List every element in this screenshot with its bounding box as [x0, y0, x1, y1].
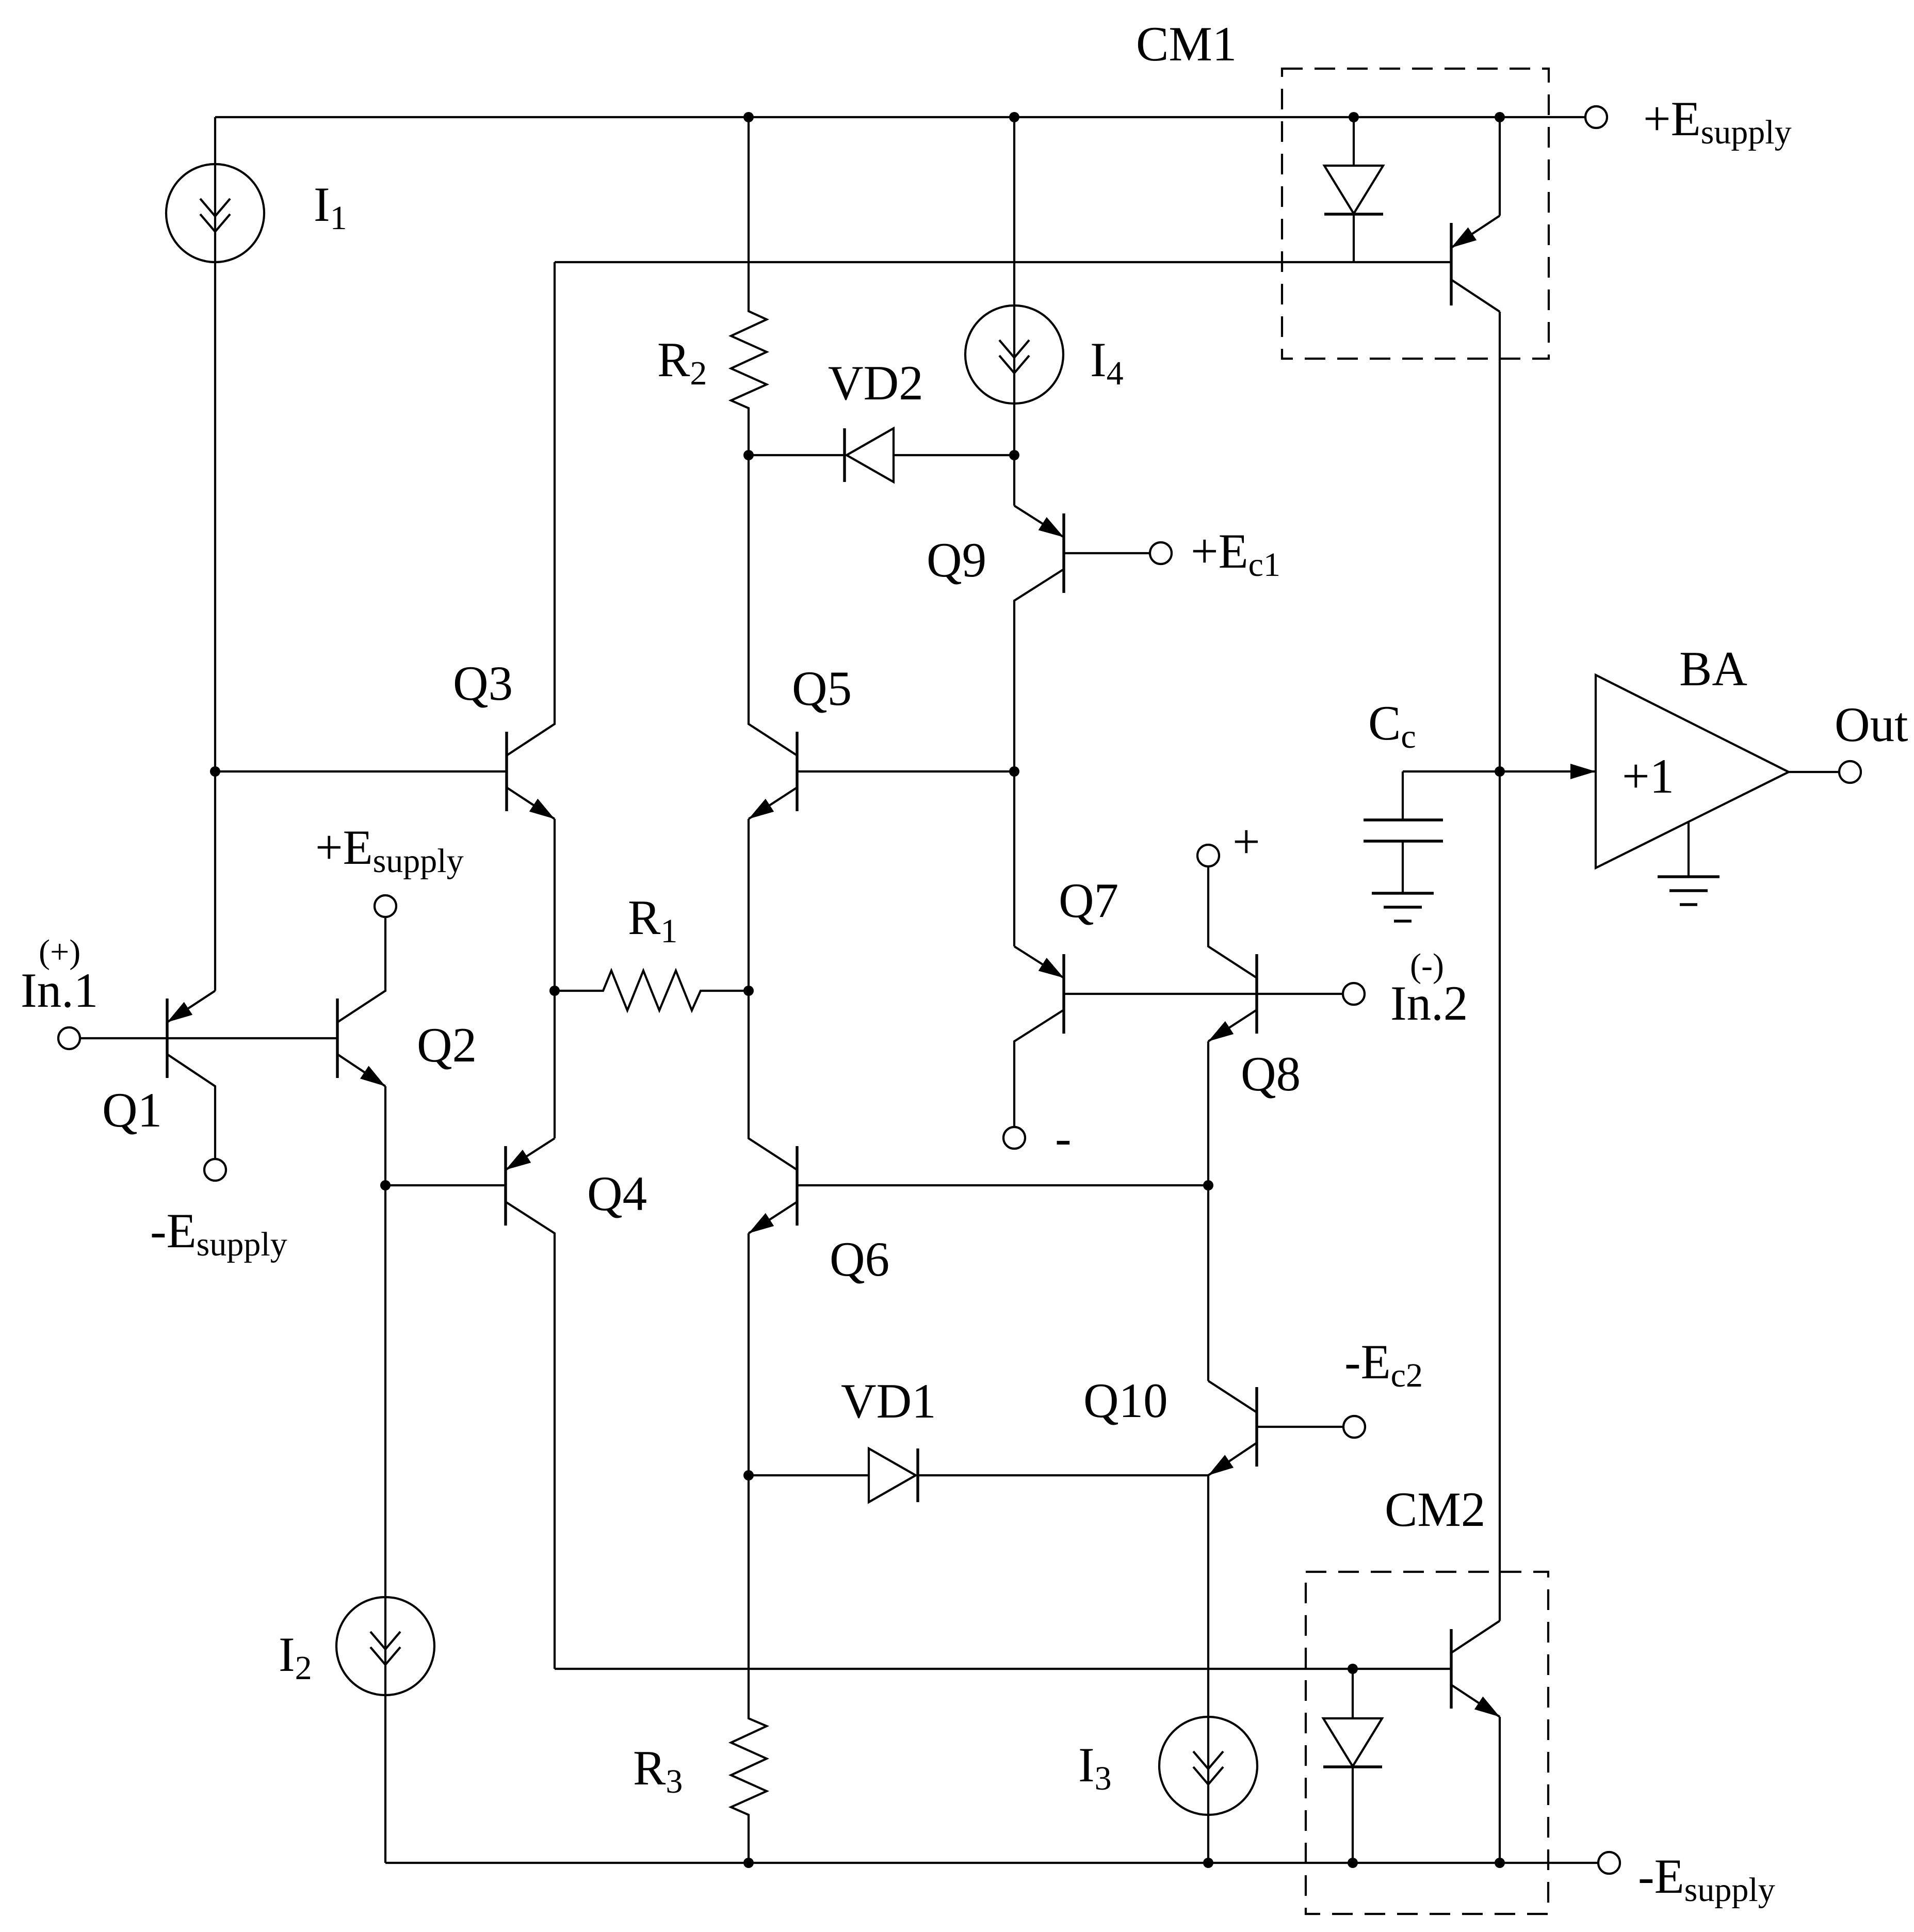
- transistor Q7: [1014, 946, 1064, 978]
- current mirror CM2 dashed box: [1306, 1572, 1548, 1914]
- svg-text:Q4: Q4: [587, 1166, 647, 1221]
- wire left column from top rail through I1 down to Q1 emitter: [214, 117, 216, 991]
- svg-text:In.1: In.1: [21, 963, 98, 1018]
- svg-text:Q10: Q10: [1083, 1373, 1168, 1428]
- resistor R2: [731, 117, 767, 455]
- node Q3 base tap: [210, 766, 220, 777]
- terminal +Ec1: [1150, 542, 1172, 564]
- resistor R3: [731, 1475, 767, 1863]
- wire Cc node to BA input: [1403, 770, 1596, 772]
- terminal -Ec2: [1343, 1416, 1365, 1438]
- current source I2: [336, 1597, 434, 1695]
- node VD2 / I4 bottom: [1009, 450, 1019, 460]
- svg-text:Q3: Q3: [453, 656, 513, 711]
- svg-text:CM2: CM2: [1385, 1482, 1485, 1537]
- node R1 right: [743, 986, 754, 996]
- op-amp buffer BA: [1596, 675, 1789, 868]
- svg-text:BA: BA: [1679, 641, 1747, 696]
- node top rail / CM1 diode: [1349, 112, 1359, 122]
- node top rail / R2: [743, 112, 754, 122]
- wire Q6 base to Q8 emitter node: [797, 1184, 1208, 1186]
- node bottom rail / I3: [1203, 1858, 1213, 1868]
- svg-text:Q1: Q1: [102, 1083, 162, 1137]
- terminal Out: [1839, 761, 1861, 783]
- svg-text:VD1: VD1: [841, 1374, 936, 1428]
- transistor Q9: [1014, 506, 1064, 537]
- svg-text:+1: +1: [1622, 749, 1674, 803]
- terminal +Esupply above Q2: [375, 895, 396, 917]
- transistor Q8: [1255, 954, 1258, 1034]
- svg-text:-: -: [1055, 1110, 1072, 1165]
- svg-text:VD2: VD2: [828, 356, 923, 410]
- transistor Q10: [1207, 1185, 1209, 1381]
- diode VD2: [749, 454, 845, 456]
- node bottom rail / CM2 emitter: [1495, 1858, 1505, 1868]
- svg-text:Q2: Q2: [417, 1018, 477, 1072]
- current source I3: [1159, 1717, 1257, 1815]
- diode VD1: [749, 1474, 869, 1476]
- wire Q3 collector line to CM1 base: [555, 261, 1451, 263]
- transistor Q5: [796, 732, 798, 811]
- wire +Esupply top rail: [215, 116, 1585, 118]
- wire In.1 base line to Q1 and Q2: [80, 1037, 337, 1039]
- transistor Q2: [336, 999, 338, 1078]
- terminal +Esupply top right: [1585, 106, 1607, 128]
- transistor Q6: [796, 1146, 798, 1226]
- wire I2 column: [384, 1185, 386, 1863]
- svg-text:Out: Out: [1835, 697, 1908, 752]
- ground below Cc: [1372, 892, 1434, 894]
- svg-text:Q7: Q7: [1059, 873, 1118, 928]
- node Q2 emitter / Q4 base / I2: [380, 1180, 391, 1190]
- wire Q3 base: [215, 770, 507, 772]
- transistor Q1: [166, 999, 168, 1078]
- resistor R1: [555, 971, 749, 1010]
- terminal In.2: [1343, 983, 1365, 1005]
- current mirror CM1 dashed box: [1282, 69, 1549, 359]
- current source I1: [166, 164, 264, 262]
- wire Q5 base to Q9 collector column: [797, 770, 1014, 772]
- svg-text:Q8: Q8: [1241, 1046, 1301, 1101]
- transistor CM1: [1450, 223, 1452, 305]
- capacitor Cc: [1402, 771, 1404, 820]
- svg-text:In.2: In.2: [1390, 976, 1468, 1031]
- node Q5 base / Q9 collector: [1009, 766, 1019, 777]
- terminal plus above Q8: [1197, 845, 1219, 866]
- svg-text:CM1: CM1: [1136, 17, 1237, 71]
- node VD1 anode / Q6 collector column: [743, 1470, 754, 1480]
- svg-text:Q9: Q9: [927, 533, 986, 587]
- wire BA output: [1789, 771, 1839, 773]
- diode CM1: [1353, 117, 1355, 166]
- wire Q4 collector line to CM2 base: [555, 1668, 1451, 1670]
- svg-text:Q5: Q5: [792, 661, 852, 716]
- wire Q4 base from Q2 emitter node: [385, 1184, 506, 1186]
- node CM2 base / diode: [1348, 1664, 1358, 1674]
- wire Q10 emitter down to I3: [1207, 1475, 1209, 1863]
- terminal -Esupply bottom right: [1598, 1852, 1620, 1874]
- terminal -Esupply below Q1: [204, 1159, 226, 1181]
- diode CM2: [1352, 1669, 1354, 1718]
- node BA input / CM collector column: [1495, 766, 1505, 777]
- terminal minus below Q7: [1003, 1127, 1025, 1149]
- svg-text:Q6: Q6: [830, 1232, 889, 1286]
- wire I4 column: [1013, 117, 1015, 506]
- node Q8 emitter / Q6 base: [1203, 1180, 1213, 1190]
- ground below BA: [1688, 822, 1690, 877]
- node bottom rail / CM2 diode: [1348, 1858, 1358, 1868]
- wire -Esupply bottom rail: [385, 1862, 1598, 1864]
- wire CM1 collector long vertical: [1499, 312, 1501, 1621]
- svg-text:+: +: [1232, 814, 1260, 869]
- node R2 bottom / VD2 / Q5 collector: [743, 450, 754, 460]
- transistor CM2: [1450, 1629, 1452, 1709]
- node bottom rail / R3: [743, 1858, 754, 1868]
- current source I4: [965, 305, 1063, 404]
- transistor Q3: [505, 732, 508, 811]
- transistor Q4: [504, 1146, 507, 1226]
- node top rail / I4: [1009, 112, 1019, 122]
- terminal In.1: [58, 1027, 80, 1049]
- node R1 left: [549, 986, 560, 996]
- node top rail / CM1 emitter: [1495, 112, 1505, 122]
